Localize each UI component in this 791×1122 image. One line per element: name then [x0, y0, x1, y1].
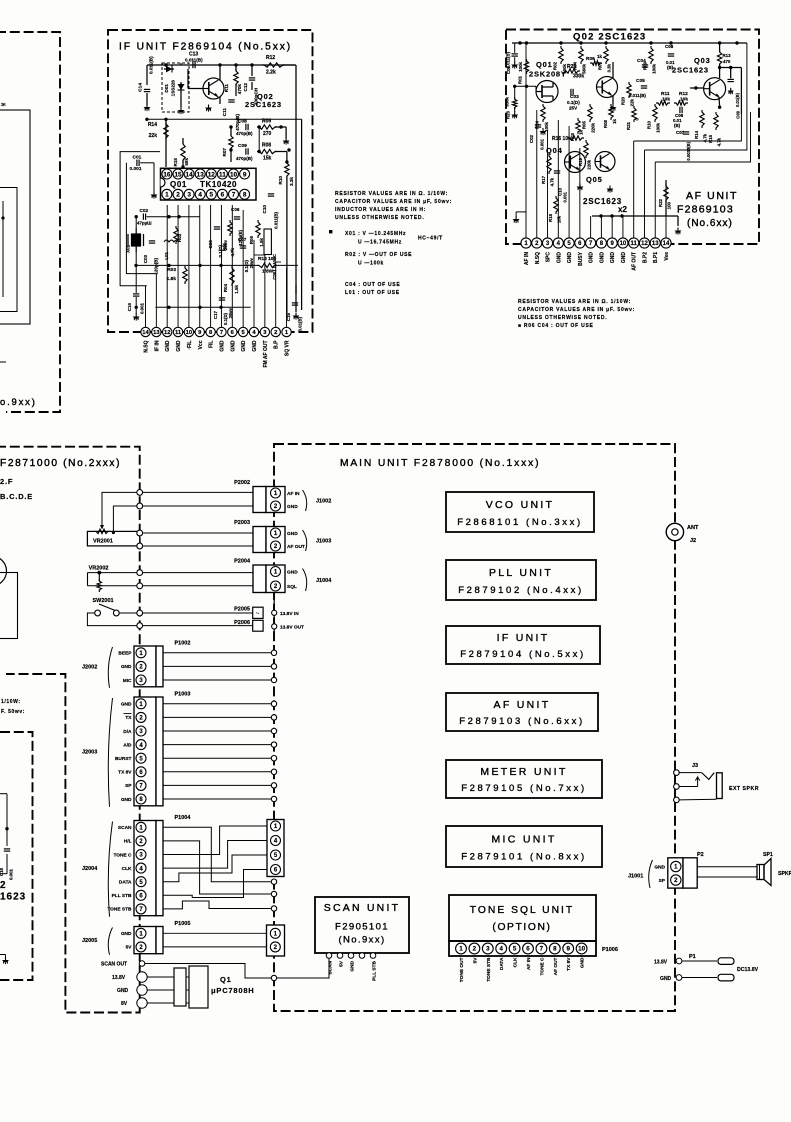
svg-text:12: 12	[208, 171, 216, 178]
svg-text:0.011(B): 0.011(B)	[629, 93, 646, 98]
svg-text:8: 8	[553, 946, 557, 953]
partial ground	[5, 957, 7, 960]
svg-text:J2002: J2002	[82, 664, 97, 670]
svg-text:R23: R23	[506, 110, 511, 119]
svg-text:R17: R17	[541, 175, 546, 183]
wire to VR2001 b	[113, 506, 139, 531]
svg-text:100k: 100k	[656, 122, 661, 132]
connector J2002/P1002	[134, 646, 156, 687]
wire	[275, 126, 286, 128]
unit box IF UNIT	[446, 626, 600, 664]
resistor R19	[584, 140, 588, 158]
svg-text:SPKR: SPKR	[778, 871, 791, 877]
svg-text:CAPACITOR VALUES ARE IN μF, 50: CAPACITOR VALUES ARE IN μF, 50wv:	[335, 199, 452, 205]
svg-text:GND: GND	[610, 252, 616, 264]
ground	[514, 112, 516, 115]
svg-text:P2006: P2006	[234, 620, 250, 626]
capacitor C09r	[728, 78, 734, 80]
svg-text:Q01: Q01	[170, 180, 187, 189]
speaker wires	[697, 866, 757, 868]
svg-text:R06: R06	[586, 56, 595, 62]
resistor R03b	[576, 118, 580, 134]
svg-text:4.7k: 4.7k	[717, 137, 722, 146]
resistor R17	[547, 154, 551, 174]
regulator Q1	[174, 968, 186, 1006]
svg-text:Vcc: Vcc	[198, 340, 204, 349]
svg-text:C09: C09	[238, 143, 247, 149]
resistor R13r	[717, 50, 721, 66]
svg-text:68k: 68k	[184, 158, 189, 166]
svg-text:11: 11	[175, 330, 182, 336]
svg-text:470: 470	[723, 59, 731, 64]
wire	[679, 786, 697, 788]
capacitor C05	[214, 226, 220, 228]
wire bus low	[156, 306, 251, 308]
ANT jack J2	[666, 523, 683, 540]
svg-text:FIL: FIL	[209, 341, 215, 349]
capacitor C17	[219, 297, 225, 299]
IF bottom connector pins 14-1	[141, 327, 150, 336]
svg-text:C07: C07	[238, 237, 247, 242]
svg-text:1: 1	[459, 946, 463, 953]
J3 jack contact	[702, 773, 715, 780]
wire scan out	[145, 956, 329, 978]
svg-text:DATA: DATA	[119, 880, 132, 886]
note bullet	[329, 230, 332, 233]
SCAN UNIT pins	[326, 953, 332, 959]
wires pins to circuit	[145, 286, 147, 328]
svg-text:2: 2	[473, 946, 477, 953]
svg-text:AF OUT: AF OUT	[287, 544, 305, 550]
svg-text:GND: GND	[121, 664, 132, 670]
svg-text:0.011(B): 0.011(B)	[149, 56, 154, 74]
svg-text:TONE C: TONE C	[539, 957, 545, 976]
svg-text:C02: C02	[529, 134, 534, 143]
svg-text:13.8V IN: 13.8V IN	[280, 611, 299, 617]
diode D01a	[164, 68, 174, 70]
svg-text:J1001: J1001	[628, 874, 643, 880]
crystal X01	[132, 234, 141, 246]
svg-text:220k: 220k	[591, 122, 596, 132]
P1 wire2	[682, 977, 717, 979]
P1 lug1	[718, 958, 734, 965]
node	[1, 216, 4, 219]
wire	[251, 65, 253, 76]
wire	[295, 300, 297, 312]
svg-text:2SC1623: 2SC1623	[245, 100, 282, 109]
svg-text:X01 : V —10.245MHz: X01 : V —10.245MHz	[345, 231, 406, 237]
ground	[146, 104, 148, 107]
svg-text:TX: TX	[125, 715, 132, 721]
svg-text:1k: 1k	[612, 118, 617, 123]
resistor R15	[714, 112, 718, 130]
unit box PLL UNIT	[446, 560, 596, 600]
wire	[146, 93, 148, 105]
wire	[88, 572, 140, 574]
wire	[230, 127, 232, 136]
SW2001 switch	[95, 610, 101, 616]
svg-text:C12: C12	[243, 83, 248, 92]
svg-text:2.F: 2.F	[0, 477, 13, 486]
resistor R10	[285, 161, 289, 178]
P1004 right pins	[271, 821, 281, 831]
resistor R03	[183, 266, 187, 284]
VR2002 wiper	[98, 573, 100, 581]
svg-text:8: 8	[243, 192, 247, 199]
inductor L01	[164, 240, 179, 242]
svg-text:C02: C02	[140, 208, 149, 213]
svg-text:Vee: Vee	[664, 252, 670, 261]
svg-text:J2003: J2003	[82, 749, 97, 755]
P1 pin2	[676, 975, 682, 981]
node dots af	[599, 214, 602, 217]
svg-text:5V: 5V	[126, 945, 133, 951]
diode pack D01 dashed box	[162, 63, 189, 112]
svg-text:R09: R09	[643, 61, 648, 70]
ground	[542, 128, 544, 131]
svg-text:6: 6	[221, 192, 225, 199]
wire	[719, 43, 721, 52]
J3 jack body	[717, 773, 723, 799]
svg-text:C14: C14	[138, 83, 144, 92]
VR2002 node	[97, 571, 101, 575]
svg-text:HC–49/T: HC–49/T	[418, 236, 443, 242]
capacitor C12	[249, 77, 255, 79]
svg-text:0.001: 0.001	[9, 868, 14, 880]
svg-text:14: 14	[663, 241, 670, 247]
svg-text:13.8V: 13.8V	[112, 975, 126, 981]
resistor R05	[228, 220, 232, 236]
svg-text:R21: R21	[626, 121, 631, 130]
svg-text:120p(B): 120p(B)	[154, 258, 159, 275]
svg-text:25V: 25V	[569, 106, 578, 111]
svg-text:R07: R07	[222, 148, 227, 157]
svg-text:GND: GND	[252, 340, 258, 352]
TONE SQL pin box	[449, 941, 596, 956]
connector P2002/J1002	[253, 487, 266, 513]
resistor R06	[256, 220, 260, 238]
svg-text:GND: GND	[580, 957, 586, 968]
svg-text:R15: R15	[173, 158, 178, 167]
resistor R14	[164, 122, 168, 140]
svg-text:R04: R04	[223, 284, 228, 293]
P2005 box	[253, 607, 263, 618]
svg-text:F2869103: F2869103	[677, 204, 734, 216]
svg-text:D01: D01	[164, 84, 169, 93]
ground	[135, 314, 137, 317]
svg-text:0.1(D): 0.1(D)	[567, 100, 580, 105]
svg-text:SPC: SPC	[546, 252, 552, 263]
svg-text:AF IN: AF IN	[524, 252, 530, 265]
capacitor C14	[144, 88, 150, 90]
svg-text:TONE C: TONE C	[113, 852, 132, 858]
partial cap 0.001	[4, 848, 10, 850]
svg-text:5: 5	[513, 946, 517, 953]
resistor R09	[257, 125, 277, 129]
svg-text:■ R06 C04 : OUT OF USE: ■ R06 C04 : OUT OF USE	[518, 323, 594, 329]
svg-text:RESISTOR VALUES ARE IN Ω. 1/10: RESISTOR VALUES ARE IN Ω. 1/10W:	[335, 191, 448, 197]
svg-text:F. 50wv:: F. 50wv:	[1, 709, 25, 715]
svg-text:F2879105 (No.7xx): F2879105 (No.7xx)	[461, 783, 587, 794]
wire	[525, 43, 527, 48]
svg-text:47pµШ: 47pµШ	[137, 221, 152, 226]
wire right rail	[283, 64, 296, 66]
svg-text:CLK: CLK	[122, 866, 132, 872]
wire	[146, 65, 148, 85]
svg-text:C08: C08	[238, 119, 247, 125]
svg-text:2.2k: 2.2k	[266, 70, 276, 76]
partial wire2	[0, 954, 6, 956]
svg-text:330k: 330k	[505, 96, 510, 106]
wire	[88, 585, 140, 587]
TONE SQL pins 1-10	[456, 943, 467, 954]
capacitor C02	[142, 214, 144, 220]
svg-text:C11: C11	[222, 108, 227, 117]
capacitor C09	[245, 148, 247, 154]
wire rail2	[147, 118, 302, 120]
wire top rail	[147, 64, 295, 66]
svg-text:C16: C16	[127, 303, 132, 312]
svg-text:IF IN: IF IN	[154, 340, 160, 351]
svg-text:ЭI: ЭI	[1, 102, 5, 107]
capacitor C01	[512, 53, 518, 55]
svg-text:15k: 15k	[263, 156, 272, 162]
svg-text:IF UNIT: IF UNIT	[497, 632, 550, 644]
svg-text:R05: R05	[222, 242, 227, 251]
svg-text:TX 8V: TX 8V	[566, 957, 572, 971]
svg-text:μPC7808H: μPC7808H	[211, 986, 255, 995]
svg-text:1.8k: 1.8k	[167, 276, 177, 282]
svg-text:R08: R08	[603, 119, 608, 128]
svg-text:C18: C18	[0, 867, 4, 876]
svg-text:R02 : V —OUT OF USE: R02 : V —OUT OF USE	[345, 252, 412, 258]
svg-text:SCAN UNIT: SCAN UNIT	[324, 902, 400, 914]
svg-text:SP: SP	[125, 783, 132, 789]
capacitor C01	[136, 160, 138, 166]
svg-text:DATA: DATA	[499, 957, 505, 970]
svg-text:PLL UNIT: PLL UNIT	[489, 567, 553, 579]
svg-text:TX 8V: TX 8V	[118, 770, 132, 776]
svg-text:P1: P1	[689, 954, 696, 960]
border nodes left box	[137, 490, 143, 496]
svg-text:MAIN UNIT F2878000 (No.1xxx): MAIN UNIT F2878000 (No.1xxx)	[340, 458, 540, 469]
svg-text:P1006: P1006	[602, 947, 618, 953]
svg-text:AF OUT: AF OUT	[553, 957, 559, 975]
wire bus upper	[147, 216, 200, 218]
resistor R20	[627, 82, 631, 98]
svg-text:R22: R22	[658, 198, 663, 207]
transistor Q05	[595, 152, 615, 172]
svg-text:(B): (B)	[674, 123, 681, 128]
svg-text:P2004: P2004	[234, 559, 251, 565]
wire	[180, 94, 182, 107]
resistor R21	[632, 106, 636, 122]
svg-text:PLL STB: PLL STB	[112, 893, 132, 899]
resistor R15	[181, 142, 185, 162]
wire	[515, 212, 517, 216]
svg-text:CLK: CLK	[513, 957, 519, 967]
wire	[143, 491, 253, 493]
svg-text:DC13.8V: DC13.8V	[737, 967, 759, 973]
svg-text:A/D: A/D	[123, 742, 132, 748]
svg-text:GND: GND	[287, 570, 298, 576]
resistor R05	[588, 104, 592, 122]
transistor Q02	[203, 78, 224, 99]
svg-text:GND: GND	[121, 702, 132, 708]
meter circle (cut)	[0, 556, 7, 586]
svg-text:TONE SQL UNIT: TONE SQL UNIT	[470, 905, 574, 916]
node	[164, 118, 167, 121]
svg-text:7: 7	[232, 192, 236, 199]
wire	[143, 625, 253, 627]
IC Q01 TK10420 body	[161, 168, 257, 200]
svg-text:EXT SPKR: EXT SPKR	[729, 786, 759, 792]
svg-text:GND: GND	[654, 865, 665, 871]
13.8V IN pin	[272, 610, 277, 615]
svg-text:0.011(B): 0.011(B)	[506, 51, 511, 68]
svg-text:5: 5	[210, 192, 214, 199]
wire loop outer	[120, 152, 160, 286]
svg-text:14: 14	[186, 171, 194, 178]
svg-text:3.3k: 3.3k	[607, 63, 612, 72]
svg-text:GND: GND	[176, 340, 182, 352]
ground	[514, 62, 516, 65]
svg-text:1/8W: 1/8W	[262, 269, 274, 275]
svg-text:TONE OUT: TONE OUT	[459, 957, 465, 982]
svg-text:10: 10	[186, 330, 192, 336]
svg-text:J2004: J2004	[82, 866, 98, 872]
transistor Q02m	[597, 77, 618, 98]
svg-text:(No.6xx): (No.6xx)	[687, 218, 733, 229]
resistor R18	[554, 196, 558, 214]
svg-text:C05: C05	[636, 78, 645, 84]
svg-text:10: 10	[578, 946, 585, 953]
svg-text:VR2001: VR2001	[93, 538, 113, 544]
wire loop inner	[126, 163, 155, 274]
unit box METER UNIT	[446, 760, 602, 798]
svg-text:C04 : OUT OF USE: C04 : OUT OF USE	[345, 282, 400, 288]
unit box VCO UNIT	[446, 492, 594, 532]
svg-text:(OPTION): (OPTION)	[492, 922, 551, 933]
resistor R01	[524, 59, 528, 74]
svg-text:N.SQ: N.SQ	[144, 340, 150, 352]
wires P1004 crossings	[163, 827, 271, 881]
capacitor C10b	[554, 170, 560, 172]
svg-text:15: 15	[174, 171, 182, 178]
P1 pin1	[676, 958, 682, 964]
TX overline	[124, 713, 132, 715]
svg-text:GND: GND	[567, 252, 573, 264]
wires to Q1	[147, 976, 174, 978]
wire	[720, 67, 742, 69]
svg-text:13: 13	[153, 330, 160, 336]
AF bottom connector pins 1-14	[521, 238, 531, 248]
svg-text:9: 9	[243, 171, 247, 178]
svg-text:MIC UNIT: MIC UNIT	[491, 833, 556, 845]
svg-text:Q03: Q03	[694, 56, 711, 65]
wire right rail2	[301, 119, 303, 310]
border nodes	[271, 879, 276, 884]
ground	[153, 192, 155, 195]
svg-text:470p(B): 470p(B)	[236, 131, 253, 136]
capacitor C15	[292, 302, 298, 304]
svg-text:1.5k: 1.5k	[234, 285, 239, 294]
ground	[515, 216, 517, 219]
svg-text:11: 11	[631, 241, 638, 247]
wire	[143, 505, 253, 507]
svg-text:Q1: Q1	[220, 975, 232, 984]
svg-text:H/L: H/L	[124, 839, 132, 845]
svg-text:Q05: Q05	[586, 175, 603, 184]
svg-text:R03: R03	[167, 267, 176, 273]
svg-text:12: 12	[164, 330, 170, 336]
svg-text:R11: R11	[224, 84, 229, 93]
resistor R09	[649, 46, 653, 64]
wires AF pins	[525, 48, 527, 238]
svg-text:F2905101: F2905101	[335, 922, 389, 933]
svg-text:R09: R09	[262, 119, 271, 125]
inner block outline	[0, 188, 17, 312]
svg-text:R14: R14	[148, 122, 157, 128]
svg-text:SCAN: SCAN	[118, 825, 132, 831]
capacitor C08	[668, 53, 674, 55]
svg-text:J1004: J1004	[316, 578, 332, 584]
speaker SP1	[757, 865, 764, 880]
resistor R08	[257, 149, 277, 153]
wire	[143, 545, 253, 547]
J3 pins	[674, 770, 680, 776]
resistor R10	[653, 104, 657, 122]
svg-text:R11: R11	[661, 91, 670, 97]
svg-text:3.3k: 3.3k	[289, 177, 294, 186]
svg-text:R08: R08	[262, 143, 271, 149]
resistor R12	[262, 63, 285, 67]
svg-text:R03: R03	[570, 132, 575, 141]
svg-text:R05: R05	[582, 120, 587, 129]
svg-text:22k: 22k	[630, 98, 635, 106]
resistor R13	[257, 263, 277, 267]
svg-text:C08: C08	[665, 44, 674, 49]
svg-text:J2: J2	[690, 538, 696, 544]
svg-text:R12: R12	[679, 91, 688, 97]
svg-text:9: 9	[566, 946, 570, 953]
wire emitter	[219, 97, 221, 104]
wire xtal	[135, 217, 137, 228]
svg-text:R10: R10	[278, 176, 283, 185]
svg-text:F2871000 (No.2xxx): F2871000 (No.2xxx)	[0, 458, 121, 469]
svg-text:0.001: 0.001	[130, 166, 142, 172]
svg-text:R19: R19	[578, 157, 583, 165]
svg-text:TONE STB: TONE STB	[486, 957, 492, 982]
svg-text:U —100k: U —100k	[358, 261, 384, 267]
svg-text:C03: C03	[143, 255, 148, 264]
svg-text:2SC1623: 2SC1623	[672, 66, 709, 75]
svg-text:FM AF OUT: FM AF OUT	[263, 341, 269, 368]
svg-text:C01: C01	[133, 155, 142, 161]
svg-text:R10: R10	[647, 120, 652, 129]
partial wire	[0, 793, 7, 795]
svg-text:R16 10k: R16 10k	[552, 136, 571, 142]
svg-text:1SS226: 1SS226	[171, 80, 176, 97]
wire	[275, 151, 287, 153]
svg-text:220k: 220k	[587, 159, 592, 169]
connector P2003/J1003	[253, 527, 266, 553]
svg-text:AF IN: AF IN	[287, 491, 300, 497]
svg-text:BUSY: BUSY	[578, 251, 584, 266]
wire	[161, 63, 163, 65]
svg-text:IF UNIT F2869104 (No.5xx): IF UNIT F2869104 (No.5xx)	[119, 42, 292, 53]
svg-text:100k: 100k	[544, 121, 549, 131]
